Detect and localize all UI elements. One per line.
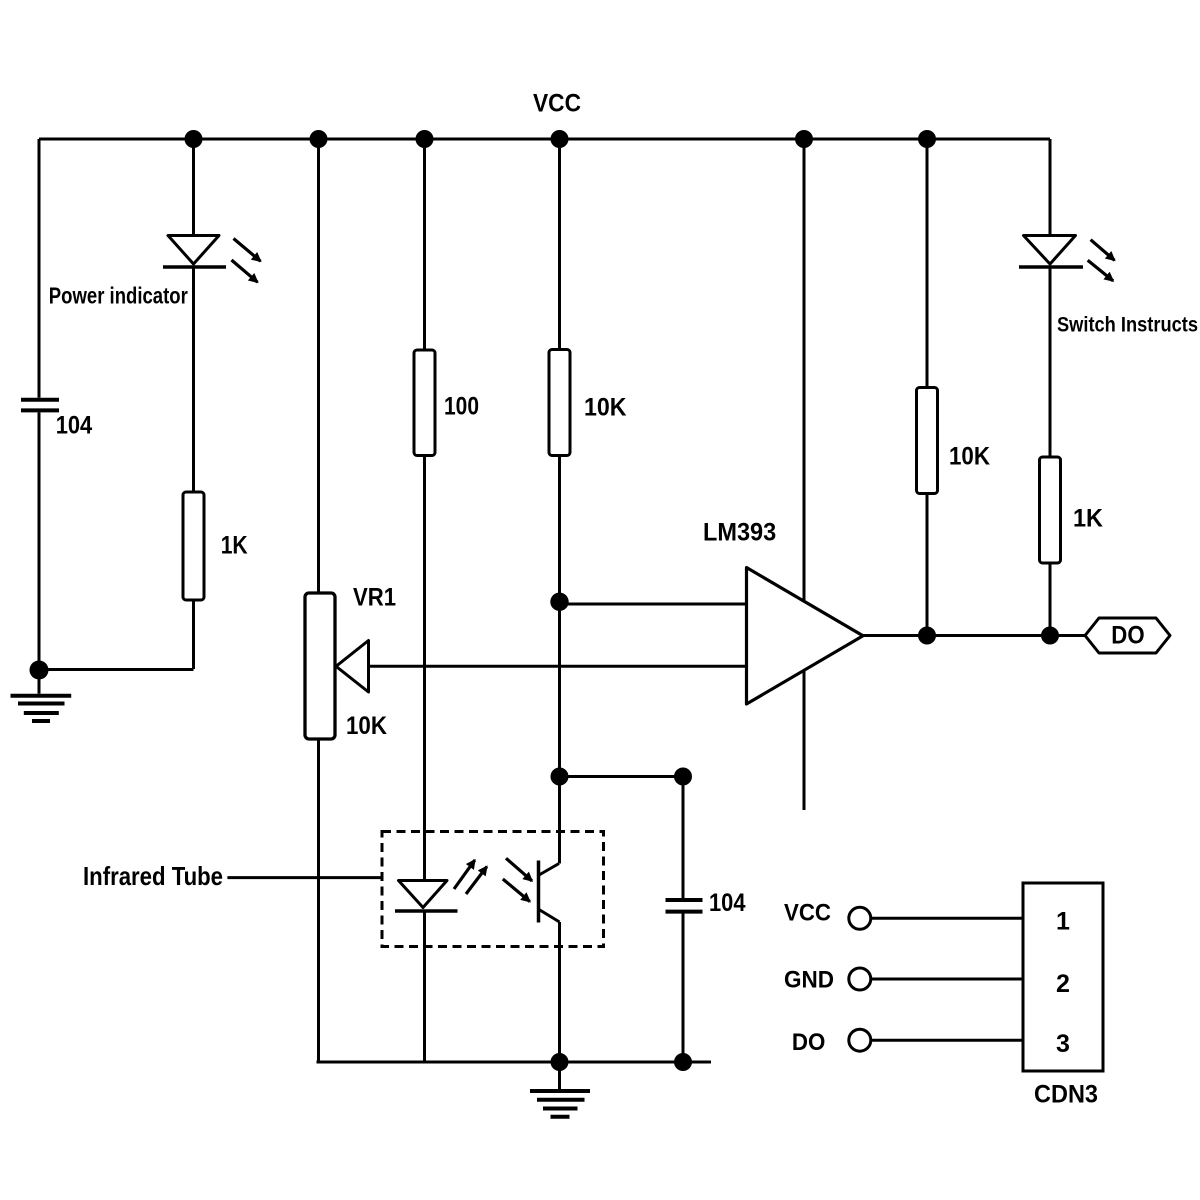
svg-text:VCC: VCC	[784, 900, 831, 927]
svg-text:1K: 1K	[221, 532, 248, 560]
svg-text:104: 104	[709, 889, 746, 917]
svg-text:LM393: LM393	[703, 519, 776, 547]
svg-text:DO: DO	[1111, 622, 1144, 650]
svg-text:100: 100	[444, 392, 479, 420]
svg-text:Power indicator: Power indicator	[49, 283, 188, 309]
svg-text:VR1: VR1	[353, 584, 396, 612]
svg-text:104: 104	[56, 411, 93, 439]
svg-text:2: 2	[1056, 970, 1070, 998]
svg-text:CDN3: CDN3	[1034, 1081, 1098, 1109]
svg-text:10K: 10K	[584, 393, 627, 421]
svg-text:DO: DO	[792, 1029, 826, 1056]
svg-text:1K: 1K	[1073, 505, 1103, 533]
svg-text:GND: GND	[784, 967, 834, 994]
svg-text:Infrared Tube: Infrared Tube	[83, 861, 223, 891]
svg-text:10K: 10K	[949, 443, 990, 471]
svg-text:VCC: VCC	[533, 90, 581, 118]
svg-text:1: 1	[1056, 907, 1070, 935]
svg-text:3: 3	[1056, 1030, 1070, 1058]
svg-text:Switch Instructs: Switch Instructs	[1057, 313, 1198, 337]
svg-text:10K: 10K	[346, 712, 387, 740]
